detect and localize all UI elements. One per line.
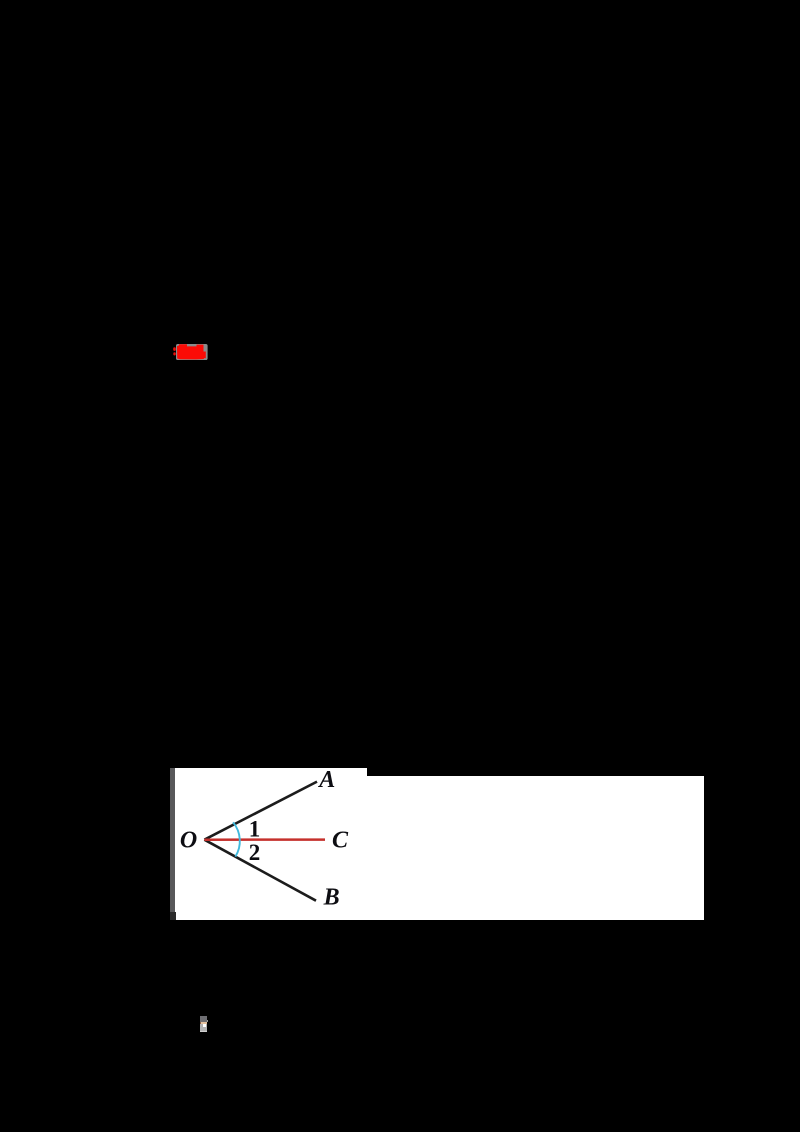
diagram right white panel: [367, 776, 704, 920]
geometry diagram svg: [170, 760, 710, 925]
tiny attachment icon: [200, 1016, 207, 1032]
answer tag: [170, 336, 216, 366]
answer tag red scribble: [177, 344, 206, 359]
answer tag left red ticks: [173, 347, 176, 351]
sidebar dark bottom notch: [170, 912, 176, 920]
svg-text:1: 1: [249, 816, 261, 841]
svg-text:B: B: [323, 885, 340, 911]
ray OA: [204, 782, 317, 840]
answer tag gray background box: [176, 344, 208, 360]
svg-text:O: O: [180, 827, 197, 853]
ray OC (red): [204, 838, 325, 841]
svg-text:C: C: [332, 827, 349, 853]
gray sidebar: [170, 768, 175, 912]
ray OB: [204, 840, 316, 901]
svg-text:2: 2: [249, 840, 261, 865]
cyan angle arc: [233, 822, 240, 856]
diagram left white panel: [175, 768, 367, 920]
tiny icon right nub: [207, 1020, 209, 1022]
svg-text:A: A: [317, 767, 335, 793]
